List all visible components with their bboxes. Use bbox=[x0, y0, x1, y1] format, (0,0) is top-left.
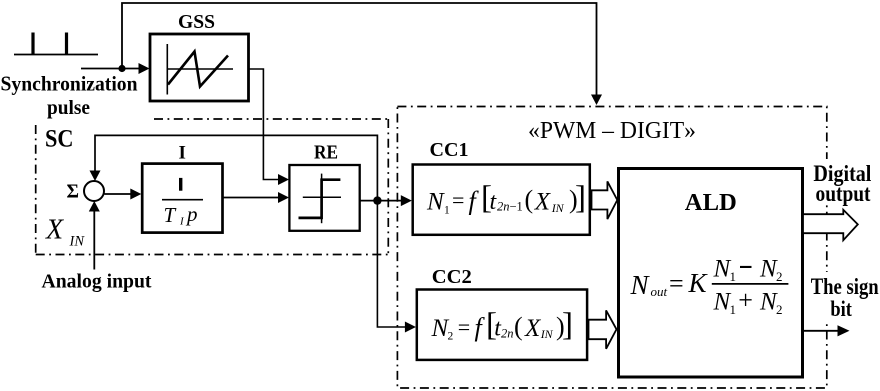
wire: feedback RE output to summer bbox=[95, 135, 377, 200]
svg-text:pulse: pulse bbox=[47, 97, 90, 119]
block CC2 bbox=[417, 290, 587, 360]
wire: I to RE bbox=[223, 197, 281, 199]
wire: sign bit output bbox=[802, 330, 839, 332]
block RE (relay) bbox=[289, 165, 359, 231]
svg-text:I: I bbox=[179, 143, 186, 164]
SC dash-dot box bbox=[36, 119, 389, 255]
block arrow CC2 to ALD bbox=[589, 310, 617, 348]
node: junction RE output bbox=[373, 196, 381, 204]
svg-text:(: ( bbox=[525, 185, 534, 214]
svg-text:X: X bbox=[45, 215, 64, 246]
svg-text:CC2: CC2 bbox=[432, 266, 472, 288]
svg-text:2: 2 bbox=[776, 302, 783, 317]
svg-text:RE: RE bbox=[314, 142, 338, 164]
svg-text:output: output bbox=[816, 181, 871, 206]
svg-text:SC: SC bbox=[45, 126, 74, 153]
block GSS bbox=[150, 34, 249, 101]
wire: analog input up into summer bbox=[93, 207, 95, 270]
block arrow CC1 to ALD bbox=[592, 181, 618, 219]
block CC1 bbox=[413, 165, 590, 235]
svg-text:2n: 2n bbox=[497, 200, 510, 214]
cover behind digital labels bbox=[808, 159, 880, 205]
svg-text:N: N bbox=[426, 189, 445, 216]
svg-text:T: T bbox=[164, 203, 177, 227]
svg-text:=: = bbox=[669, 269, 684, 298]
svg-text:CC1: CC1 bbox=[430, 139, 469, 161]
sawtooth icon in GSS bbox=[167, 44, 233, 95]
svg-text:2: 2 bbox=[448, 331, 454, 343]
svg-text:]: ] bbox=[575, 180, 586, 216]
svg-text:1: 1 bbox=[730, 269, 737, 284]
wire: summer to I bbox=[105, 193, 133, 195]
node: arrow into PWM-DIGIT top bbox=[591, 95, 602, 106]
wire: GSS output down to RE bbox=[249, 69, 282, 180]
svg-text:«PWM – DIGIT»: «PWM – DIGIT» bbox=[528, 118, 696, 144]
svg-text:2n: 2n bbox=[501, 326, 514, 340]
svg-text:1: 1 bbox=[444, 205, 450, 217]
svg-text:X: X bbox=[524, 315, 542, 342]
integrator fraction 1/(T_I p) bbox=[179, 178, 182, 191]
svg-text:GSS: GSS bbox=[178, 11, 215, 33]
wire: sync pulse to GSS bbox=[81, 68, 139, 70]
block I (integrator) bbox=[142, 164, 222, 233]
svg-text:2: 2 bbox=[776, 269, 783, 284]
svg-text:K: K bbox=[688, 268, 709, 298]
svg-text:out: out bbox=[651, 284, 668, 299]
summer sigma circle bbox=[84, 181, 104, 201]
svg-text:N: N bbox=[630, 270, 651, 300]
svg-text:Synchronization: Synchronization bbox=[1, 72, 138, 96]
svg-text:1: 1 bbox=[730, 302, 737, 317]
svg-text:(: ( bbox=[514, 312, 523, 341]
block arrow ALD digital output bbox=[803, 210, 858, 240]
svg-text:bit: bit bbox=[830, 296, 852, 321]
wire: RE output to CC1 bbox=[360, 200, 403, 202]
svg-text:+: + bbox=[738, 286, 753, 315]
svg-text:Σ: Σ bbox=[67, 181, 80, 203]
svg-text:Analog input: Analog input bbox=[42, 271, 152, 293]
svg-text:]: ] bbox=[562, 307, 573, 343]
svg-text:=: = bbox=[458, 314, 470, 339]
node: junction sync bbox=[118, 65, 125, 72]
svg-text:ALD: ALD bbox=[685, 190, 737, 216]
svg-text:p: p bbox=[185, 202, 198, 226]
PWM-DIGIT dash-dot box bbox=[397, 107, 826, 389]
block ALD bbox=[619, 169, 803, 378]
relay icon bbox=[299, 174, 342, 224]
svg-text:=: = bbox=[452, 188, 464, 213]
formula N_out = K (N1-N2)/(N1+N2) bbox=[630, 255, 789, 317]
wire: sync top loop to PWM-DIGIT bbox=[122, 3, 597, 96]
svg-text:IN: IN bbox=[69, 234, 86, 250]
svg-text:X: X bbox=[534, 189, 552, 216]
svg-text:−1: −1 bbox=[510, 200, 523, 214]
svg-text:IN: IN bbox=[540, 327, 554, 341]
svg-text:IN: IN bbox=[551, 201, 565, 215]
formula N1 = f[t2n-1(X_IN)] bbox=[426, 180, 586, 216]
pulse waveform symbol bbox=[14, 33, 98, 55]
wire: junction down to CC2 bbox=[377, 201, 407, 327]
formula N2 = f[t2n(X_IN)] bbox=[431, 307, 574, 343]
